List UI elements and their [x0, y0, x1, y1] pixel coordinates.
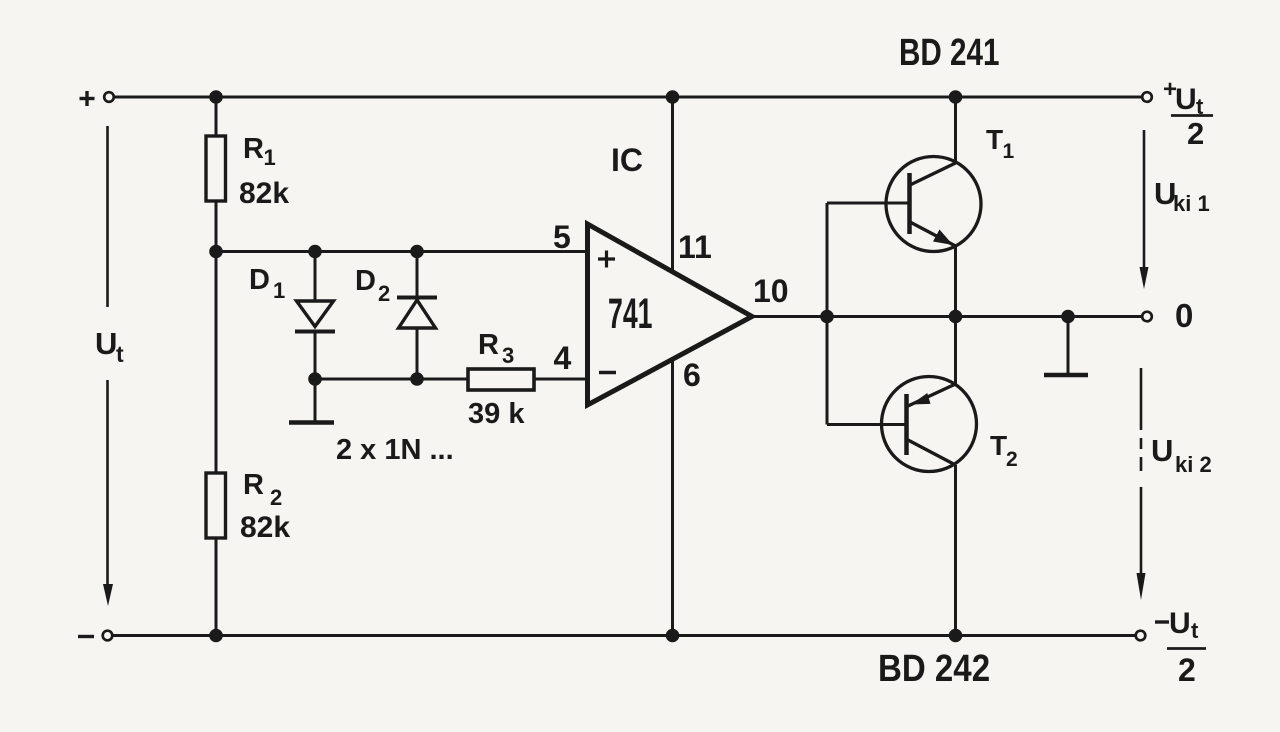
svg-text:U: U	[95, 326, 117, 361]
wire bottom rail	[113, 634, 1136, 637]
wire base branch vertical	[826, 203, 829, 425]
label pin 4	[554, 340, 572, 376]
wire R3 to op-amp - input	[534, 378, 588, 381]
wire R2 bottom lead	[215, 538, 218, 636]
ground (diodes)	[289, 420, 334, 425]
wire pin 11 to top rail	[671, 97, 674, 270]
junction node A	[209, 245, 223, 259]
label +Ut/2	[1163, 76, 1213, 151]
svg-text:1: 1	[273, 278, 285, 303]
label BD242	[878, 647, 990, 690]
wire diode node to R3	[315, 378, 468, 381]
junction D2 top	[410, 245, 424, 259]
label - (op-amp inverting input)	[599, 371, 616, 375]
svg-text:11: 11	[678, 229, 712, 265]
svg-text:10: 10	[753, 273, 789, 309]
svg-text:39 k: 39 k	[468, 398, 525, 430]
svg-text:6: 6	[683, 357, 701, 393]
svg-text:D: D	[355, 265, 376, 297]
wire diode node to ground	[314, 379, 317, 422]
label R1	[243, 133, 276, 170]
wire T1 collector	[954, 97, 957, 164]
wire D1 cathode lead	[314, 332, 317, 380]
label 82k (R2)	[240, 511, 290, 544]
svg-text:R: R	[478, 329, 499, 361]
label IC	[611, 142, 643, 178]
svg-text:U: U	[1175, 83, 1197, 116]
svg-text:1: 1	[1003, 140, 1015, 163]
svg-text:U: U	[1169, 607, 1191, 640]
label 82k (R1)	[239, 177, 289, 210]
svg-text:U: U	[1151, 433, 1173, 468]
label BD241	[899, 32, 999, 74]
wire op-amp output	[751, 315, 1142, 318]
resistor R2	[206, 473, 226, 538]
transistor Q2 (T2 BD242)	[882, 377, 977, 472]
svg-text:741: 741	[608, 290, 652, 338]
svg-text:0: 0	[1175, 297, 1193, 334]
svg-text:T: T	[990, 430, 1007, 461]
junction output to bases	[820, 310, 834, 324]
junction pin 6 rail	[666, 629, 680, 643]
wire D2 anode lead	[416, 328, 419, 379]
svg-text:2 x 1N ...: 2 x 1N ...	[336, 434, 454, 466]
svg-text:t: t	[116, 341, 124, 367]
op-amp U1 741	[588, 224, 753, 405]
svg-text:82k: 82k	[240, 511, 290, 544]
label 0	[1175, 297, 1193, 334]
junction emitters output	[949, 310, 963, 324]
label pin 11	[678, 229, 712, 265]
wire node A to op-amp + input	[216, 250, 588, 253]
label pin 5	[553, 219, 571, 255]
svg-text:R: R	[243, 469, 264, 501]
arrow Uki2	[1137, 368, 1146, 600]
svg-text:BD 241: BD 241	[899, 32, 999, 74]
wire R1 bottom to R2 top	[215, 201, 218, 473]
label Uki1	[1154, 176, 1210, 216]
svg-text:82k: 82k	[239, 177, 289, 210]
wire D1 anode lead	[314, 252, 317, 302]
label R3	[478, 329, 514, 368]
wire top rail	[114, 96, 1142, 99]
svg-text:R: R	[243, 133, 264, 165]
junction pin 11 rail	[666, 90, 680, 104]
diode D1	[295, 301, 335, 332]
wire pin 6 to bottom rail	[671, 360, 674, 636]
label - (left bottom terminal)	[78, 635, 94, 638]
label Uki2	[1151, 433, 1212, 477]
arrow Ut (left)	[103, 126, 113, 606]
label T2	[990, 430, 1018, 471]
wire D2 cathode lead	[416, 252, 419, 298]
junction output ground	[1061, 310, 1075, 324]
label pin 10	[753, 273, 789, 309]
junction R1 top rail	[209, 90, 223, 104]
transistor Q1 (T1 BD241)	[886, 157, 981, 252]
label pin 6	[683, 357, 701, 393]
label R2	[243, 469, 282, 510]
svg-text:5: 5	[553, 219, 571, 255]
svg-text:BD 242: BD 242	[878, 647, 990, 690]
diode D2	[397, 298, 437, 329]
label D1	[249, 264, 285, 303]
junction D1 top	[308, 245, 322, 259]
svg-text:2: 2	[1187, 116, 1204, 151]
label D2	[355, 265, 390, 306]
resistor R3	[468, 369, 534, 390]
terminal minus left	[103, 631, 113, 641]
wire T1 base	[827, 202, 910, 205]
svg-text:D: D	[249, 264, 270, 296]
wire T2 collector	[954, 465, 957, 636]
junction T2 collector rail	[949, 629, 963, 643]
junction R2 bottom rail	[209, 629, 223, 643]
wire T1 emitter	[954, 245, 957, 317]
svg-text:T: T	[986, 124, 1003, 155]
svg-text:t: t	[1191, 618, 1199, 643]
label -Ut/2	[1155, 607, 1206, 688]
resistor R1	[206, 136, 226, 201]
ground (output)	[1044, 373, 1088, 378]
terminal -Ut/2 right bottom	[1136, 631, 1146, 641]
svg-text:2: 2	[1006, 448, 1018, 471]
junction T1 collector rail	[949, 90, 963, 104]
wire T2 emitter	[954, 317, 957, 385]
wire divider chain top lead	[215, 97, 218, 136]
label T1	[986, 124, 1015, 163]
svg-text:4: 4	[554, 340, 572, 376]
label 2 x 1N ...	[336, 434, 454, 466]
svg-text:3: 3	[502, 343, 514, 368]
terminal plus left	[104, 92, 114, 102]
arrow Uki1	[1140, 130, 1149, 289]
svg-text:2: 2	[270, 485, 282, 510]
junction D1 bottom	[308, 372, 322, 386]
svg-text:1: 1	[264, 145, 276, 170]
svg-text:2: 2	[1178, 652, 1196, 688]
terminal +Ut/2 right top	[1142, 92, 1152, 102]
terminal 0 output	[1142, 312, 1152, 322]
svg-text:2: 2	[378, 281, 390, 306]
junction D2 bottom	[410, 372, 424, 386]
label Ut (left)	[95, 326, 124, 367]
wire T2 base	[827, 423, 907, 426]
label 741	[608, 290, 652, 338]
label + (left terminal)	[80, 91, 95, 106]
svg-text:ki 2: ki 2	[1175, 452, 1212, 477]
wire output ground lead	[1067, 317, 1070, 376]
label 39k	[468, 398, 525, 430]
label + (op-amp non-inverting input)	[598, 251, 615, 268]
svg-text:IC: IC	[611, 142, 643, 178]
svg-text:ki 1: ki 1	[1173, 191, 1210, 216]
